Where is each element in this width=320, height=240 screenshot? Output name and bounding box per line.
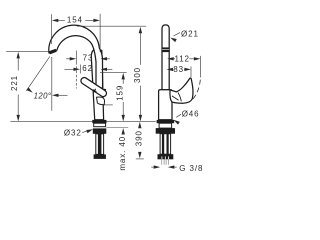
svg-text:120°: 120° — [34, 91, 52, 100]
dim 62 extension line — [79, 65, 81, 74]
left view: body side tick — [105, 104, 113, 106]
mounting plane line — [10, 121, 155, 123]
right view: mounting nut — [156, 128, 175, 134]
left view: base ring — [92, 120, 106, 123]
dim 112 — [167, 57, 174, 60]
angle 120 arrowheads — [52, 94, 59, 97]
svg-text:83: 83 — [173, 65, 184, 74]
svg-text:62: 62 — [82, 64, 93, 73]
svg-text:G 3/8: G 3/8 — [179, 164, 203, 173]
dim 73 extension line — [75, 51, 77, 63]
left view: spacer box — [94, 123, 106, 127]
dim 83 — [167, 68, 174, 71]
right view: handle (front) — [170, 78, 193, 103]
svg-text:Ø46: Ø46 — [182, 110, 200, 119]
right view: body — [159, 90, 172, 120]
svg-text:Ø32: Ø32 — [64, 128, 82, 137]
left view: handle lever capsule — [84, 81, 103, 94]
right view: spacer box — [159, 123, 172, 128]
svg-text:max. 40: max. 40 — [118, 136, 127, 171]
counter bottom line — [107, 127, 129, 129]
dim 159 line — [122, 79, 124, 116]
dim 300 line — [139, 33, 141, 116]
left view: shank bottom flange — [94, 154, 106, 159]
left view: mounting nut — [93, 128, 107, 133]
handle swing dashed arc — [191, 80, 200, 102]
top reference line (300) — [77, 25, 146, 27]
angle 120 rays — [26, 57, 52, 111]
svg-text:390: 390 — [135, 130, 144, 146]
dim 221 top reference line — [6, 51, 48, 53]
svg-text:Ø21: Ø21 — [181, 29, 199, 38]
right view: shank with hoses — [160, 134, 171, 155]
dim max.40 arrow — [122, 128, 125, 135]
left view: handle hub neck — [97, 97, 105, 105]
svg-text:159: 159 — [115, 85, 124, 101]
left view: spout tip aerator face — [49, 50, 56, 53]
svg-text:154: 154 — [67, 15, 83, 24]
left view: faucet body column — [91, 49, 103, 120]
left view: plus mark on lever — [92, 88, 98, 94]
svg-text:112: 112 — [174, 54, 189, 63]
dim 390 arrows and line — [138, 122, 141, 129]
svg-text:221: 221 — [10, 75, 19, 91]
dim 221 line — [17, 57, 19, 116]
right view: swivel joint bands — [162, 47, 169, 52]
right view: spout column — [162, 25, 169, 90]
svg-text:73: 73 — [83, 53, 94, 62]
svg-text:300: 300 — [133, 67, 142, 83]
right view: bottom flange — [158, 154, 174, 159]
dim 154 line and arrows — [57, 19, 94, 21]
handle interior lines — [172, 92, 181, 101]
dim 73 — [66, 58, 70, 60]
right view: hose stubs — [162, 159, 169, 165]
left view: spout tube arc — [49, 25, 103, 88]
dim G 3/8 — [151, 166, 155, 168]
dim 62 — [65, 68, 75, 70]
left view: threaded shank — [96, 134, 104, 155]
outlet reference line (159) — [100, 71, 127, 73]
right view: base ring — [157, 120, 175, 123]
dim 154 extension lines — [51, 14, 100, 52]
left view: cartridge dome wedge — [103, 89, 107, 93]
